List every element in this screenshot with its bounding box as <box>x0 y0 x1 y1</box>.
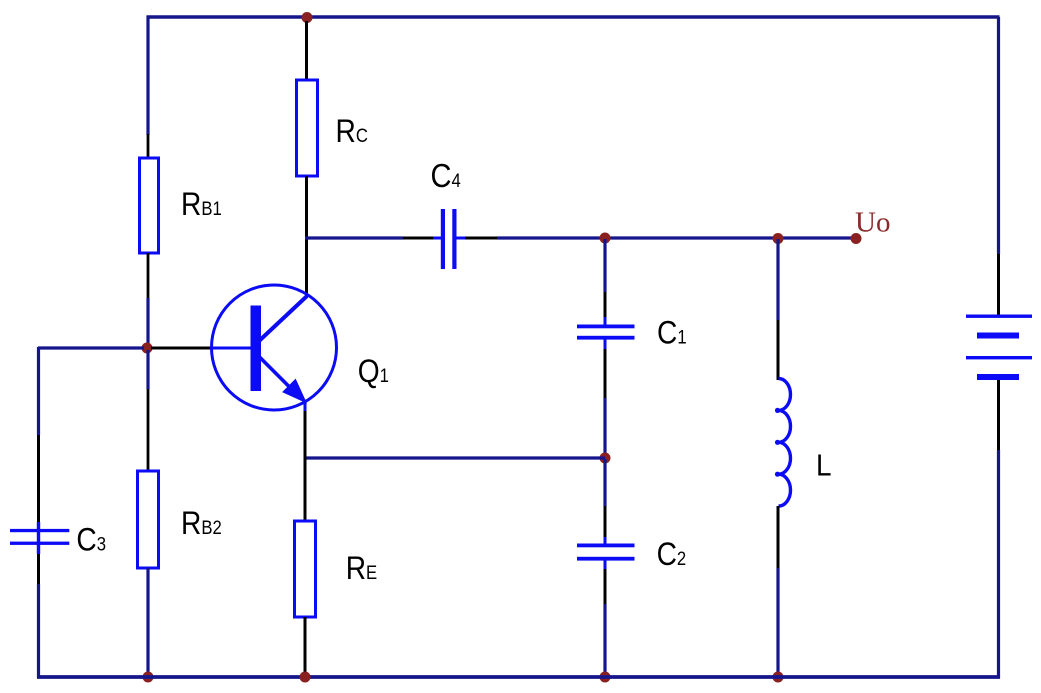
node top rail / RC junction dot <box>302 12 313 23</box>
capacitor C4 lead stub right <box>456 237 465 240</box>
wire battery bottom lead (black) <box>997 380 1000 450</box>
wire L lower (black) <box>777 506 780 568</box>
svg-text:C2: C2 <box>657 537 687 572</box>
svg-text:L: L <box>816 448 832 483</box>
wire C1 upper (navy) <box>603 239 606 292</box>
resistor RC <box>297 80 318 176</box>
wire left outer vertical upper (top corner down to RB1 area) <box>146 16 149 136</box>
wire battery top lead (black) <box>997 254 1000 315</box>
svg-text:C1: C1 <box>657 316 687 351</box>
node bottom rail / RB2 dot <box>143 672 154 683</box>
capacitor C2 lead stub top <box>604 537 607 544</box>
capacitor C1 lead stub top <box>604 317 607 325</box>
wire to RB2 (black) <box>147 389 150 472</box>
svg-text:RB2: RB2 <box>181 506 222 541</box>
capacitor C4 lead stub left <box>433 237 441 240</box>
node Uo terminal dot <box>851 233 862 244</box>
wire collector node to C4 (navy part) <box>305 236 403 239</box>
transistor Q1 collector line <box>259 296 307 341</box>
transistor Q1 circle <box>212 285 337 410</box>
capacitor C4 right plate <box>452 209 456 269</box>
transistor Q1 emitter arrowhead <box>283 380 305 402</box>
wire L upper (black) <box>777 320 780 380</box>
transistor Q1 base bar <box>251 306 262 392</box>
battery plate short 2 <box>977 374 1019 380</box>
wire bottom rail <box>37 675 1000 679</box>
resistor RE <box>295 521 316 617</box>
svg-text:Uo: Uo <box>855 206 890 238</box>
wire C2 lower (navy) to bottom rail <box>603 604 606 678</box>
capacitor C3 lead (blue, crosses plates) <box>37 522 40 554</box>
node base junction dot <box>142 343 153 354</box>
svg-text:C3: C3 <box>76 523 106 558</box>
inductor L coil <box>779 379 791 507</box>
wire left outer vertical (navy, below base row) <box>37 347 40 435</box>
wire L upper (navy) <box>776 239 779 320</box>
svg-text:RE: RE <box>346 551 378 586</box>
wire C2 lower (black) <box>604 569 607 604</box>
node emitter row junction dot <box>600 453 611 464</box>
wire black segment left of C4 <box>403 237 434 240</box>
capacitor C2 lead stub bottom <box>604 560 607 570</box>
svg-text:C4: C4 <box>431 157 461 194</box>
wire emitter row horizontal <box>305 456 605 459</box>
wire black segment right of C4 <box>465 237 497 240</box>
wire below RB2 to bottom rail <box>146 568 149 678</box>
wire below base node (navy) <box>146 350 149 389</box>
node bottom rail / RE dot <box>300 672 311 683</box>
wire L lower (navy) to bottom rail <box>776 568 779 678</box>
wire below RE to bottom rail (black) <box>304 617 307 678</box>
capacitor C2 bottom plate <box>577 557 635 561</box>
transistor Q1 emitter stub (blue) <box>304 401 307 411</box>
node bottom rail / C2 dot <box>600 672 611 683</box>
capacitor C2 top plate <box>577 544 635 548</box>
battery plate long 2 <box>966 356 1032 359</box>
node C1 top junction dot <box>600 233 611 244</box>
wire C1 upper (black) <box>604 292 607 318</box>
wire right vertical upper (navy) <box>997 17 1000 254</box>
svg-text:RC: RC <box>336 114 368 149</box>
capacitor C3 top plate <box>10 529 69 532</box>
wire black stub above RB1 <box>147 134 150 159</box>
battery plate long 1 <box>966 315 1032 318</box>
wire top dot down to RC <box>305 21 308 81</box>
wire base lead black (node to transistor) <box>151 347 213 350</box>
wire below RB1 (black) <box>147 253 150 299</box>
capacitor C1 top plate <box>577 325 635 329</box>
battery plate short 1 <box>977 333 1019 339</box>
wire base node to left (navy) <box>38 346 144 349</box>
resistor RB2 <box>138 471 159 568</box>
wire left outer vertical (black, below C3) <box>37 554 40 584</box>
wire C1 lower (navy) to emitter node <box>603 398 606 459</box>
transistor Q1 emitter line <box>259 357 290 388</box>
svg-text:Q1: Q1 <box>358 354 389 389</box>
wire right vertical lower (navy) <box>997 450 1000 679</box>
capacitor C3 bottom plate <box>10 542 69 545</box>
capacitor C1 bottom plate <box>577 336 635 340</box>
capacitor C1 lead stub bottom <box>604 339 607 349</box>
wire C4 to Uo terminal (navy) <box>497 236 856 239</box>
wire C1 lower (black) <box>604 349 607 398</box>
resistor RB1 <box>140 158 159 253</box>
wire to base node (navy) <box>146 298 149 346</box>
wire C2 upper (navy) <box>603 459 606 506</box>
wire top rail (Vcc) <box>147 15 1000 19</box>
transistor Q1 base lead <box>212 347 251 350</box>
wire C2 upper (black) <box>604 506 607 538</box>
wire left outer vertical lower (navy, to bottom rail) <box>37 584 40 679</box>
inductor L coil joint knobs <box>775 408 780 413</box>
svg-text:RB1: RB1 <box>181 187 222 222</box>
node L top junction dot <box>773 233 784 244</box>
wire left outer vertical (black, to C3) <box>37 435 40 523</box>
wire emitter down to RE (black) <box>304 411 307 522</box>
wire RC to collector <box>305 176 308 297</box>
capacitor C4 left plate <box>441 209 445 269</box>
node bottom rail / L dot <box>773 672 784 683</box>
